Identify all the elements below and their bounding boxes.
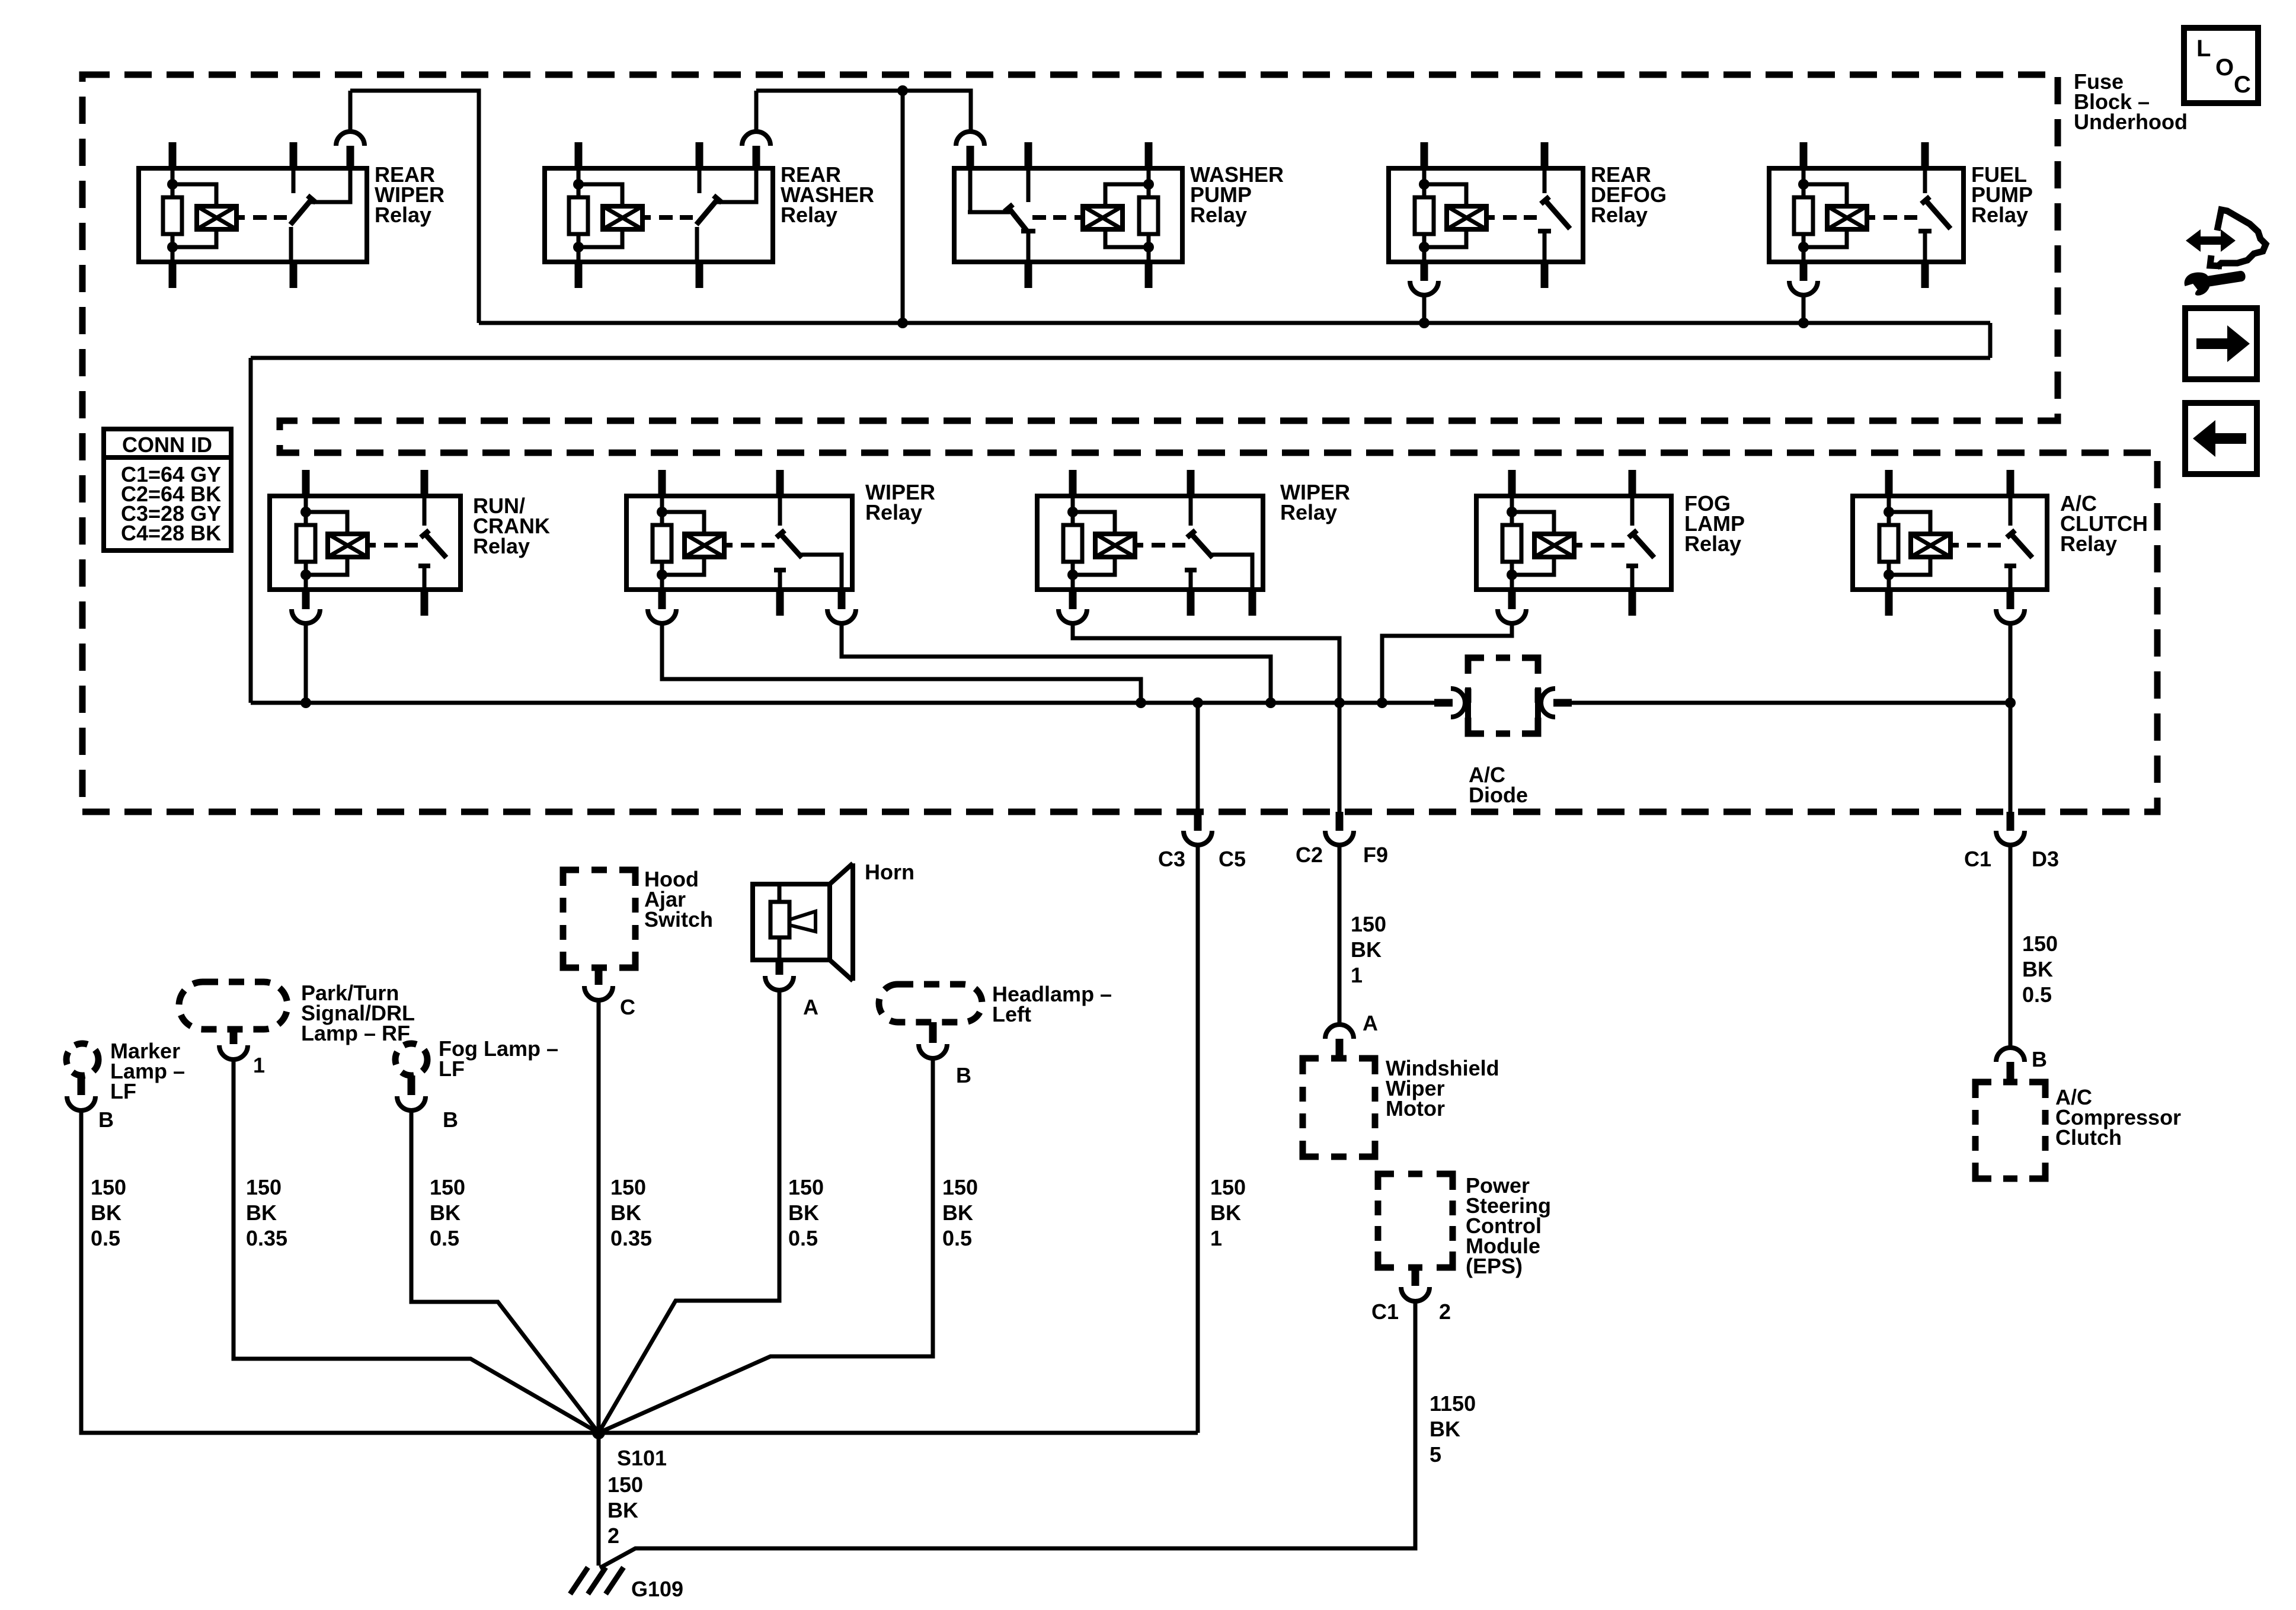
svg-text:150: 150 <box>788 1175 824 1199</box>
svg-text:5: 5 <box>1430 1442 1441 1467</box>
coil bottom pin WIPER 1 <box>658 590 666 609</box>
svg-text:BK: BK <box>1210 1201 1241 1225</box>
svg-text:Relay: Relay <box>1190 203 1247 227</box>
node W1-3043 <box>1798 318 1809 328</box>
relay FOG LAMP <box>1476 496 1671 590</box>
svg-text:LF: LF <box>110 1079 136 1103</box>
connector arc WIPER 1 coil <box>648 609 676 623</box>
splice S101 <box>592 1426 605 1439</box>
node W1-1523 <box>897 318 908 328</box>
connector arc REAR WIPER output pin <box>347 146 354 168</box>
wire REAR WIPER output up <box>348 91 353 132</box>
wire FUEL PUMP coil to bus W1 <box>1802 295 1806 323</box>
connector A wiper motor <box>1325 1025 1354 1039</box>
output bottom pin WIPER 1 <box>838 590 846 609</box>
svg-text:0.5: 0.5 <box>2022 982 2052 1007</box>
wire WIPER 1 output to bus <box>842 623 1271 703</box>
back arrow <box>2193 420 2246 457</box>
wire hood ajar to S101 <box>597 1000 601 1433</box>
svg-text:1: 1 <box>253 1053 265 1077</box>
wire S101 to ground <box>597 1433 601 1566</box>
svg-text:1150: 1150 <box>1430 1391 1476 1416</box>
wire S101 to C3/C5 riser <box>599 1431 1198 1435</box>
svg-text:L: L <box>2196 36 2211 62</box>
svg-text:150: 150 <box>2022 932 2058 956</box>
svg-text:C5: C5 <box>1219 847 1246 871</box>
double arrow <box>2186 229 2236 252</box>
svg-text:150: 150 <box>1351 912 1386 936</box>
A/C diode right terminal <box>1535 687 1541 718</box>
hood ajar switch dashed box <box>563 870 635 968</box>
svg-text:Relay: Relay <box>1684 532 1741 556</box>
svg-text:C: C <box>2234 72 2251 98</box>
wire park/turn to S101 <box>234 1060 599 1433</box>
svg-text:G109: G109 <box>631 1577 683 1601</box>
forward arrow box <box>2185 308 2257 379</box>
node bus 2260 <box>1334 697 1345 708</box>
svg-text:C4=28 BK: C4=28 BK <box>121 521 221 545</box>
connector arc WIPER 2 coil <box>1059 609 1087 623</box>
svg-text:Relay: Relay <box>865 500 922 524</box>
relay WIPER 2 <box>1037 496 1263 590</box>
output bottom pin A/C CLUTCH <box>2007 590 2014 609</box>
wire drop 1523 to W1 <box>901 91 905 323</box>
svg-text:Switch: Switch <box>644 907 713 932</box>
svg-text:Relay: Relay <box>781 203 837 227</box>
wire REAR DEFOG coil to bus W1 <box>1422 295 1427 323</box>
svg-text:Relay: Relay <box>1591 203 1648 227</box>
svg-text:F9: F9 <box>1363 843 1388 867</box>
relay REAR WASHER <box>545 168 773 262</box>
wire WIPER 1 coil to bus <box>662 623 1141 703</box>
svg-text:0.35: 0.35 <box>246 1226 287 1250</box>
diagnostic car icon <box>2217 210 2266 267</box>
wire top run to corner <box>350 91 479 323</box>
relay FUEL PUMP <box>1769 168 1964 262</box>
svg-text:150: 150 <box>607 1473 643 1497</box>
wire bus down to C2/F9 <box>1338 703 1342 812</box>
relay WASHER PUMP (mirrored) <box>954 168 1182 262</box>
svg-text:Diode: Diode <box>1469 783 1528 807</box>
svg-text:BK: BK <box>2022 957 2053 981</box>
svg-text:S101: S101 <box>617 1446 667 1470</box>
svg-text:C1: C1 <box>1964 847 1991 871</box>
headlamp left dashed capsule <box>879 984 982 1022</box>
wire marker to S101 <box>81 1110 599 1433</box>
svg-text:2: 2 <box>1439 1299 1451 1324</box>
park/turn lamp dashed capsule <box>179 982 287 1029</box>
wire RUN/CRANK coil to bus <box>304 623 308 703</box>
marker lamp pin <box>78 1076 85 1095</box>
svg-text:BK: BK <box>788 1201 819 1225</box>
connector B compressor <box>1996 1048 2025 1062</box>
svg-text:B: B <box>98 1108 114 1132</box>
fog lamp pin <box>408 1076 415 1095</box>
svg-text:C1: C1 <box>1371 1299 1399 1324</box>
svg-text:D3: D3 <box>2032 847 2059 871</box>
ground G109 <box>570 1567 588 1594</box>
horn symbol <box>753 884 830 960</box>
node bus RUN/CRANK <box>300 697 311 708</box>
relay REAR DEFOG <box>1389 168 1583 262</box>
hood ajar pin <box>595 968 603 985</box>
svg-text:B: B <box>443 1108 458 1132</box>
wrench icon <box>2183 265 2247 297</box>
svg-text:150: 150 <box>1210 1175 1246 1199</box>
coil bottom pin FUEL PUMP <box>1800 262 1808 281</box>
svg-text:0.5: 0.5 <box>788 1226 818 1250</box>
wire PSCM to ground <box>600 1301 1415 1568</box>
CONN ID box <box>104 429 231 550</box>
node bus 2144 <box>1265 697 1276 708</box>
wire main bus <box>251 701 1434 705</box>
wire fog to S101 <box>411 1110 599 1433</box>
svg-text:A: A <box>803 995 818 1019</box>
wire A/C CLUTCH output down <box>2009 623 2013 812</box>
horn pin <box>776 960 784 975</box>
coil bottom pin RUN/CRANK <box>302 590 310 609</box>
wire C1/D3 down to compressor <box>2009 845 2013 1048</box>
svg-text:Underhood: Underhood <box>2074 110 2188 134</box>
LOC reference box <box>2184 28 2258 103</box>
svg-text:BK: BK <box>1430 1417 1460 1441</box>
A/C diode left terminal <box>1434 699 1453 707</box>
node W1-2403 <box>1419 318 1430 328</box>
marker lamp LF dashed circle <box>66 1044 98 1076</box>
svg-text:0.5: 0.5 <box>430 1226 459 1250</box>
wire W1-W2 right loop <box>1988 323 1993 358</box>
svg-text:(EPS): (EPS) <box>1466 1254 1523 1278</box>
svg-text:1: 1 <box>1210 1226 1222 1250</box>
A/C diode dashed box <box>1468 658 1538 734</box>
A/C compressor clutch dashed box <box>1975 1082 2045 1179</box>
relay RUN/CRANK <box>270 496 461 590</box>
svg-text:BK: BK <box>607 1498 638 1522</box>
wire W2 <box>251 356 1990 360</box>
coil bottom pin REAR DEFOG <box>1421 262 1428 281</box>
relay WIPER 1 <box>626 496 852 590</box>
connector arc REAR DEFOG coil <box>1410 281 1438 295</box>
svg-text:150: 150 <box>430 1175 465 1199</box>
relay A/C CLUTCH <box>1853 496 2047 590</box>
svg-text:B: B <box>2032 1047 2047 1071</box>
svg-text:C: C <box>620 995 635 1019</box>
svg-text:Horn: Horn <box>865 860 914 884</box>
svg-text:LF: LF <box>439 1057 465 1081</box>
wire C3/C5 down to S101 run <box>1196 845 1200 1433</box>
park/turn pin <box>230 1029 238 1044</box>
coil bottom pin FOG LAMP <box>1508 590 1516 609</box>
wire W1 <box>479 321 1990 325</box>
wire W2 left drop <box>249 358 253 703</box>
fuse block underhood dashed outline <box>82 75 2157 812</box>
svg-text:BK: BK <box>91 1201 121 1225</box>
svg-text:1: 1 <box>1351 963 1363 987</box>
svg-text:CONN ID: CONN ID <box>122 433 212 457</box>
PSCM pin <box>1412 1267 1419 1286</box>
connector C2/F9 boundary pin <box>1336 812 1344 831</box>
svg-text:Relay: Relay <box>375 203 431 227</box>
svg-text:150: 150 <box>246 1175 282 1199</box>
svg-text:2: 2 <box>607 1523 619 1548</box>
node bus 2332 <box>1377 697 1387 708</box>
relay REAR WIPER <box>139 168 367 262</box>
svg-text:O: O <box>2215 55 2234 81</box>
node junction top <box>897 85 908 96</box>
back arrow box <box>2185 403 2257 474</box>
forward arrow <box>2196 325 2250 362</box>
connector arc WIPER 1 output <box>827 609 856 623</box>
wire C2/F9 down to wiper motor <box>1338 845 1342 1025</box>
wire FOG LAMP coil to bus <box>1382 623 1512 703</box>
coil bottom pin WIPER 2 <box>1069 590 1077 609</box>
wire top run washer to washer pump <box>756 91 971 132</box>
svg-text:Relay: Relay <box>1971 203 2028 227</box>
connector arc WASHER PUMP output pin <box>967 146 974 168</box>
wire WIPER 2 coil to bus <box>1073 623 1339 703</box>
connector arc RUN/CRANK coil <box>292 609 320 623</box>
wire REAR WASHER output up <box>754 91 759 132</box>
svg-text:BK: BK <box>610 1201 641 1225</box>
svg-text:BK: BK <box>430 1201 461 1225</box>
headlamp pin <box>929 1022 937 1043</box>
wire diode to A/C clutch node <box>1572 701 2010 705</box>
svg-text:Relay: Relay <box>1280 500 1337 524</box>
svg-text:Relay: Relay <box>473 534 530 558</box>
svg-text:BK: BK <box>246 1201 277 1225</box>
connector C1/D3 boundary pin <box>2007 812 2014 831</box>
svg-text:Left: Left <box>992 1002 1031 1026</box>
svg-text:Motor: Motor <box>1386 1096 1445 1121</box>
svg-text:150: 150 <box>610 1175 646 1199</box>
node bus 2021 <box>1192 697 1203 708</box>
fog lamp LF dashed circle <box>395 1044 427 1076</box>
svg-text:0.5: 0.5 <box>942 1226 972 1250</box>
windshield wiper motor dashed box <box>1303 1058 1375 1157</box>
PSCM dashed box <box>1378 1174 1453 1267</box>
svg-text:0.5: 0.5 <box>91 1226 120 1250</box>
wire headlamp to S101 <box>599 1058 933 1433</box>
node bus 1925 <box>1136 697 1146 708</box>
connector arc FUEL PUMP coil <box>1789 281 1818 295</box>
wire horn to S101 <box>599 990 779 1433</box>
connector arc REAR WASHER output pin <box>753 146 760 168</box>
svg-text:BK: BK <box>1351 937 1382 962</box>
svg-text:C3: C3 <box>1158 847 1185 871</box>
connector C3/C5 boundary pin <box>1196 703 1200 812</box>
svg-text:Relay: Relay <box>2060 532 2117 556</box>
svg-text:150: 150 <box>91 1175 126 1199</box>
connector arc A/C CLUTCH output <box>1996 609 2025 623</box>
svg-text:A: A <box>1363 1011 1378 1035</box>
svg-text:0.35: 0.35 <box>610 1226 652 1250</box>
svg-text:B: B <box>956 1063 971 1087</box>
connector arc FOG LAMP coil <box>1498 609 1526 623</box>
node 3392 <box>2005 697 2016 708</box>
svg-text:BK: BK <box>942 1201 973 1225</box>
svg-text:Clutch: Clutch <box>2055 1125 2122 1150</box>
svg-text:C2: C2 <box>1296 843 1323 867</box>
svg-text:150: 150 <box>942 1175 978 1199</box>
svg-text:Lamp – RF: Lamp – RF <box>301 1021 410 1045</box>
